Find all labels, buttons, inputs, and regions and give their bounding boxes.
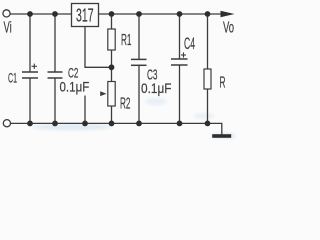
svg-text:R1: R1 xyxy=(121,32,132,49)
node adjust xyxy=(109,64,115,70)
ground xyxy=(212,134,231,138)
resistor R1 xyxy=(108,29,115,50)
terminal bottom left xyxy=(3,120,10,127)
node C1 bottom xyxy=(27,121,33,127)
wire C1 branch xyxy=(29,14,31,72)
node C4 bottom xyxy=(177,121,183,127)
node adj gnd xyxy=(82,121,88,127)
node R bottom xyxy=(205,121,211,127)
node R top xyxy=(205,11,211,17)
svg-text:Vo: Vo xyxy=(223,20,234,37)
node C1 top xyxy=(27,11,33,17)
wire R1 branch xyxy=(111,14,113,29)
regulator U1 317 xyxy=(72,4,99,27)
output arrow xyxy=(221,11,235,17)
capacitor C4 plates xyxy=(171,59,188,65)
terminal Vi xyxy=(3,10,10,17)
svg-text:C1: C1 xyxy=(8,70,17,86)
plus sign C1 xyxy=(32,64,37,69)
wire 317 adjust pin xyxy=(85,27,112,68)
wire C4 branch xyxy=(179,14,181,59)
wire C3 branch xyxy=(138,14,140,59)
capacitor C3 plates xyxy=(131,59,147,65)
node C3 bottom xyxy=(136,121,142,127)
svg-text:Vi: Vi xyxy=(4,20,12,37)
watermark smudge xyxy=(32,98,237,139)
node R2 bottom xyxy=(109,121,115,127)
node dots top rail xyxy=(27,11,210,126)
wire bottom rail xyxy=(11,122,222,124)
svg-text:C4: C4 xyxy=(184,35,195,53)
svg-text:0.1μF: 0.1μF xyxy=(141,80,172,96)
capacitor C1 plates xyxy=(22,72,38,78)
wire top rail xyxy=(10,13,222,15)
node C3 top xyxy=(136,11,142,17)
capacitor C2 plates xyxy=(48,72,63,78)
svg-text:R2: R2 xyxy=(120,96,131,113)
svg-text:317: 317 xyxy=(76,5,94,25)
node R1 top xyxy=(109,11,115,17)
wire C2 branch xyxy=(54,14,56,72)
wire R2 branch xyxy=(111,67,113,81)
plus sign C4 xyxy=(181,52,186,57)
wire adjust to ground xyxy=(84,96,86,124)
wire R branch xyxy=(207,14,209,69)
node C2 bottom xyxy=(52,121,58,127)
resistor R2 xyxy=(108,82,115,107)
node C2 top xyxy=(52,11,58,17)
wire ground drop xyxy=(221,123,223,135)
wiper arrow R2 xyxy=(100,91,106,96)
svg-text:0.1μF: 0.1μF xyxy=(60,79,90,95)
resistor R xyxy=(204,69,211,89)
svg-text:R: R xyxy=(220,74,226,91)
node C4 top xyxy=(177,11,183,17)
